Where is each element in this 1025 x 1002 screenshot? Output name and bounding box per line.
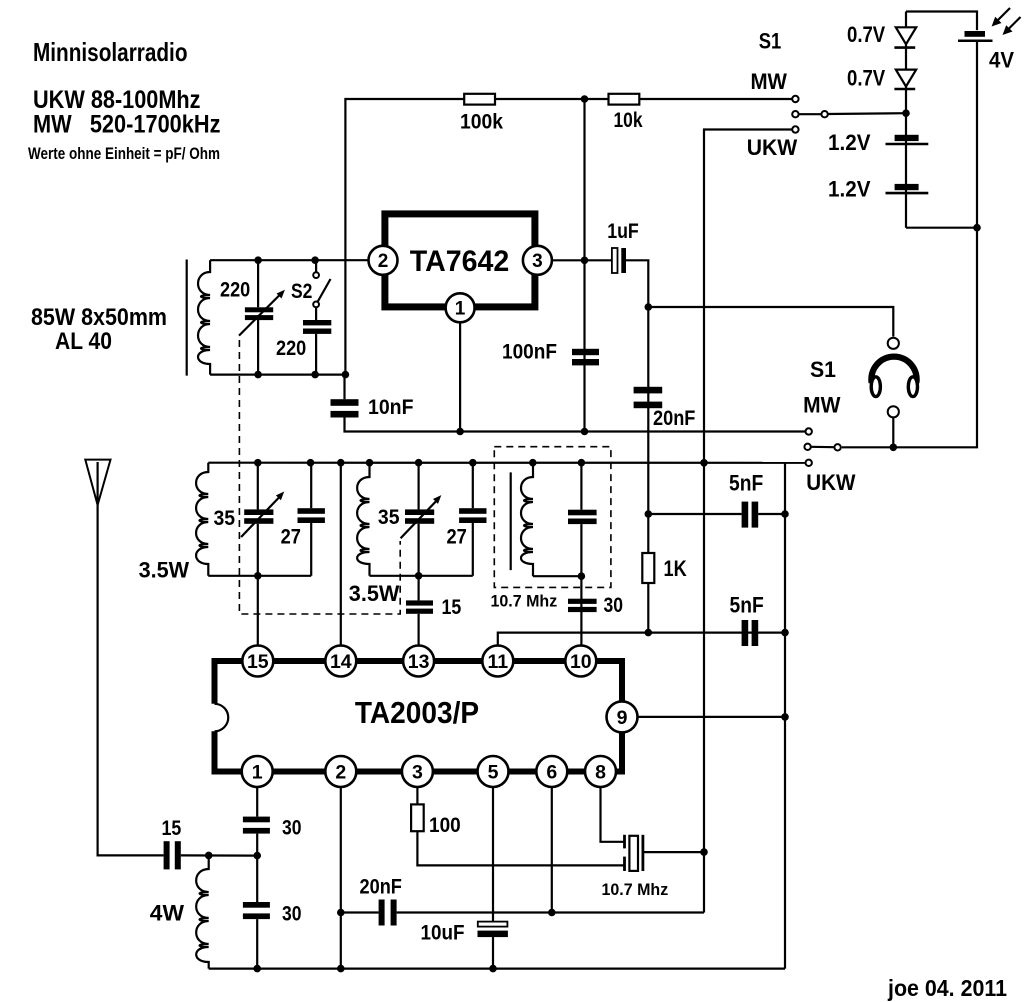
wire detector column x=584.5 [583,99,585,432]
wire pin5 down [492,787,494,921]
TA2003 pin 8 [585,756,616,787]
battery chain vertical wire x=906 [905,12,907,228]
svg-text:10: 10 [570,651,592,673]
node headphone feed [645,303,653,311]
wire pin14 column [340,463,342,646]
svg-text:TA7642: TA7642 [410,245,510,278]
wire UKW from top switch down the page x=704 [704,130,792,913]
switch S1 top MW terminal [792,96,798,102]
MW tank bottom wire [210,374,345,376]
capacitor 100nF [572,349,599,355]
ceramic filter 10.7 Mhz [623,835,626,849]
capacitor 30 (pin1 upper) [243,817,270,823]
wire pin1 down to AGC bus [459,322,461,431]
diode D2 0.7V [896,70,916,87]
node pin1 on AGC bus [456,428,464,436]
battery cell B2 1.2V [895,184,919,190]
resistor 10k [609,94,640,105]
svg-text:5nF: 5nF [730,593,764,618]
diode D1 0.7V [896,27,916,44]
capacitor 5nF lower [742,620,749,646]
wire pin15 column [257,576,259,646]
svg-text:S2: S2 [291,280,312,303]
wire battery bottom to solar column [906,227,977,229]
capacitor 10nF [343,375,345,400]
svg-text:5: 5 [488,762,499,784]
headphone symbol [871,357,916,383]
headphone jack terminal bottom [888,406,899,417]
svg-text:15: 15 [162,817,182,840]
inductor 4W [196,855,209,968]
inductor L2 3.5 turns FM osc coil [357,463,369,576]
TA2003/P box U2 [212,658,626,664]
svg-text:30: 30 [282,903,302,926]
svg-text:10nF: 10nF [368,396,414,419]
switch S1 bottom MW terminal [806,428,812,434]
bottom ground bus [209,967,785,969]
switch S1 bottom arm pivot [834,444,840,450]
TA2003 right edge [619,658,625,775]
capacitor 20nF (detector out) [634,387,663,394]
wire pin3 to 1uF [550,259,611,261]
battery cell B1 1.2V [895,135,919,141]
TA2003 pin 11 [482,646,513,677]
svg-text:14: 14 [330,651,352,673]
capacitor 5nF upper [648,513,741,515]
svg-text:AL 40: AL 40 [55,328,112,355]
svg-text:joe 04. 2011: joe 04. 2011 [887,975,1007,1001]
TA7642 pin 1 [446,293,475,322]
svg-text:27: 27 [447,526,467,549]
TA2003 pin 15 [242,646,273,677]
wire pin3 down [416,787,418,804]
switch S1 top arm pivot [821,111,827,117]
TA7642 pin 3 [523,246,552,275]
wire to headphone jack [648,307,893,337]
switch S1 bottom arm wire [811,446,835,449]
TA2003 pin 2 [325,756,356,787]
svg-text:1uF: 1uF [607,220,639,243]
capacitor 1uF [612,248,618,273]
svg-text:10k: 10k [614,109,643,132]
TA7642 pin 2 [369,246,398,275]
svg-text:4V: 4V [989,48,1014,73]
variable capacitor C-tune MW 220 [257,260,259,307]
node 5nF upper branch [645,510,653,518]
capacitor 30 (pin1 lower) [243,902,270,908]
svg-text:100: 100 [429,814,461,837]
TA2003 pin 14 [325,646,356,677]
svg-text:220: 220 [276,337,306,360]
capacitor 15 (osc tap) [406,600,433,605]
node 100nF on AGC bus [581,428,589,436]
svg-text:15: 15 [247,651,269,673]
svg-text:3: 3 [412,762,423,784]
svg-text:100nF: 100nF [502,341,557,364]
svg-text:27: 27 [281,526,301,549]
svg-text:TA2003/P: TA2003/P [355,695,479,730]
resistor 100k [464,94,495,105]
wire pin6 down [551,787,553,913]
svg-text:MW: MW [803,393,841,418]
switch S1 top UKW terminal [792,126,798,132]
light arrows into solar cell [996,8,1010,22]
wire right branch column x=785 [784,463,786,969]
wire 100 to ceramic filter [417,831,624,865]
solar column wire x=977 down to S1 MW wire [842,41,977,447]
capacitor 27 (tank2) [472,463,474,509]
svg-text:9: 9 [617,707,628,729]
svg-text:10.7 Mhz: 10.7 Mhz [602,880,669,899]
TA2003 pin 3 [402,756,433,787]
svg-text:20nF: 20nF [360,876,403,899]
svg-text:2: 2 [335,762,346,784]
capacitor 15 (antenna coupling) [164,841,170,869]
svg-text:2: 2 [378,251,389,272]
headphone jack terminal top [888,338,899,349]
TA2003 pin 10 [565,646,596,677]
svg-text:1.2V: 1.2V [828,130,871,155]
wire top supply bus y=99 [345,99,792,375]
svg-text:1: 1 [252,762,263,784]
svg-text:8: 8 [595,762,606,784]
svg-text:1.2V: 1.2V [828,177,871,202]
node on bus [254,459,262,467]
svg-text:15: 15 [442,596,462,619]
svg-text:S1: S1 [759,29,782,54]
TA2003 pin 9 [607,701,638,732]
svg-text:20nF: 20nF [653,407,696,430]
svg-text:3: 3 [532,251,543,272]
svg-text:220: 220 [220,279,250,302]
svg-text:6: 6 [546,762,557,784]
IF transformer core [510,472,512,570]
MW ferrite rod core [186,260,188,376]
variable capacitor 35 (FM osc) [418,463,420,510]
svg-text:35: 35 [214,507,236,530]
inductor L1 3.5 turns FM antenna coil [196,463,208,576]
svg-text:UKW: UKW [747,135,798,160]
TA2003 pin 13 [403,646,434,677]
IF tank capacitor [580,463,582,510]
svg-text:S1: S1 [810,357,836,382]
switch S2 [315,260,317,272]
resistor 100 [411,804,424,831]
TA2003 notch [215,704,229,732]
svg-text:100k: 100k [460,111,503,134]
svg-text:0.7V: 0.7V [847,66,885,91]
svg-text:10uF: 10uF [421,922,465,945]
variable capacitor 35 (FM RF) [257,463,259,510]
IF transformer coil [521,463,533,577]
svg-text:Werte ohne Einheit = pF/ Ohm: Werte ohne Einheit = pF/ Ohm [28,145,220,163]
svg-text:Minnisolarradio: Minnisolarradio [33,37,188,67]
svg-text:11: 11 [487,651,508,673]
TA2003 bottom edge thick [212,769,626,775]
capacitor 27 (tank1) [310,463,312,509]
svg-text:MW: MW [750,69,787,94]
wire pin8 down to filter [601,787,625,842]
capacitor 20nF (bottom) [341,911,379,913]
svg-text:1K: 1K [664,556,687,581]
svg-text:4W: 4W [150,901,184,926]
TA2003 pin 5 [478,756,509,787]
wire battery top to solar cell [906,12,977,31]
TA2003 pin 1 [242,756,273,787]
resistor 1K [647,514,649,553]
TA7642 box U1 [385,214,535,307]
tank2 bottom wire [370,575,473,577]
TA2003 pin 6 [536,756,567,787]
TA2003 left edge with notch gap [212,658,218,704]
antenna down wire [98,505,164,855]
svg-text:85W 8x50mm: 85W 8x50mm [31,304,167,331]
svg-text:30: 30 [282,817,302,840]
switch S1 top arm wires [799,113,822,115]
svg-text:10.7 Mhz: 10.7 Mhz [491,592,558,611]
tank1 bottom wire [208,575,311,577]
svg-text:0.7V: 0.7V [847,22,885,47]
wire pin9 to right column [638,716,786,718]
switch S1 bottom UKW terminal [806,460,812,466]
MW antenna coil 220 (85W 8x50mm AL40) [198,260,210,374]
solar cell 4V [965,31,986,37]
node pin3 junction [581,257,589,265]
wire pin11 up and right [498,633,785,646]
svg-text:3.5W: 3.5W [349,581,400,606]
svg-text:UKW: UKW [806,470,855,495]
capacitor 10uF [478,922,508,927]
switch S1 top common terminal [792,111,798,117]
node at 10k left / detector output column [581,95,589,103]
svg-text:30: 30 [604,594,624,617]
dashed gang link of tuning capacitors [239,340,400,614]
svg-text:35: 35 [378,506,400,529]
IF tank bottom wire [533,575,581,577]
svg-text:5nF: 5nF [729,471,763,496]
svg-text:1: 1 [455,299,466,320]
svg-text:13: 13 [408,651,430,673]
svg-text:3.5W: 3.5W [139,558,190,583]
capacitor 30 (IF out) [568,599,597,604]
VHF bus wire y=462.7 [208,462,805,464]
wire 1uF to headphone column [626,260,648,514]
switch S1 bottom common terminal [804,444,810,450]
wire pin2 to MW tank [210,259,370,261]
wire pin1 down [256,787,258,817]
capacitor 220 (S2 branch) [315,307,317,320]
antenna symbol [85,460,110,505]
wire pin2 down [340,787,342,969]
dashed box 10.7MHz IF transformer [494,447,611,588]
svg-text:MW 520-1700kHz: MW 520-1700kHz [33,111,221,139]
